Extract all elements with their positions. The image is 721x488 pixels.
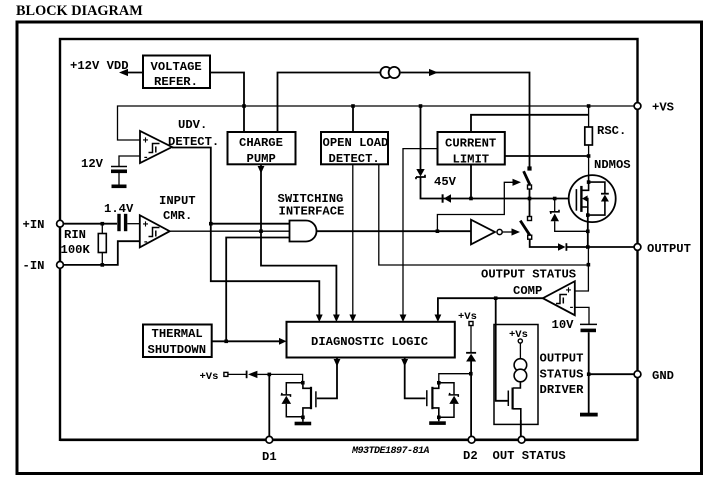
wire capacitor to comparator [127, 223, 140, 225]
wire switch pole segment [529, 189, 531, 217]
wire status output to driver gate [496, 298, 508, 401]
hysteresis symbol status comparator [556, 295, 567, 304]
battery 10V plate thick [581, 329, 597, 333]
arrowhead VDD [119, 69, 128, 76]
junction gnd line [587, 372, 591, 376]
svg-text:SHUTDOWN: SHUTDOWN [148, 343, 207, 357]
wire AND gate top input [211, 223, 290, 225]
terminal +VS [634, 103, 641, 110]
svg-text:+: + [566, 287, 572, 298]
junction rail/open-load [351, 104, 355, 108]
svg-text:1.4V: 1.4V [104, 202, 134, 216]
wire rail to 45V zener [420, 106, 422, 169]
svg-text:45V: 45V [434, 175, 457, 189]
svg-text:CMR.: CMR. [163, 209, 192, 223]
wire D1 node to FET drain [269, 374, 302, 382]
diode D2 pull (pointing up) [466, 352, 476, 354]
switch S2 blade [520, 221, 530, 236]
NDMOS channel bar [580, 186, 582, 212]
svg-text:NDMOS: NDMOS [594, 158, 631, 172]
wire S2 to output line [530, 239, 558, 247]
wire RSC bottom tap to current limit [505, 155, 589, 157]
box THERMAL SHUTDOWN [143, 325, 212, 358]
svg-text:BLOCK DIAGRAM: BLOCK DIAGRAM [16, 3, 143, 19]
terminal -IN [57, 262, 64, 269]
arrowhead S1 drive [513, 179, 522, 186]
box CURRENT LIMIT [438, 132, 505, 165]
wire charge-pump to current-source [278, 73, 381, 133]
svg-text:-: - [143, 237, 149, 248]
D1 FET source stub [303, 408, 311, 422]
wire status comp minus input to 10V ref [575, 307, 589, 324]
wire to GND terminal [589, 373, 635, 375]
terminal D2 [468, 436, 475, 443]
svg-text:+IN: +IN [23, 218, 45, 232]
svg-text:+VS: +VS [652, 101, 674, 115]
terminal OUT STATUS [518, 436, 525, 443]
terminal +Vs D2 square [469, 322, 473, 326]
svg-text:PUMP: PUMP [247, 152, 276, 166]
diode D1 pull (pointing left) [246, 371, 248, 379]
arrowhead into diagnostic logic (status comp) [435, 315, 442, 323]
op-amp input comparator [140, 215, 170, 247]
current source driver [514, 359, 527, 372]
switch S1 blade [524, 171, 530, 184]
wire output sense down [587, 247, 589, 265]
svg-text:RIN: RIN [64, 228, 86, 242]
svg-text:-: - [143, 153, 149, 164]
svg-text:REFER.: REFER. [154, 75, 198, 89]
IC boundary rectangle [60, 39, 638, 440]
wire open load to diagnostic logic [352, 164, 354, 316]
AND gate switching interface [290, 221, 317, 242]
svg-text:OUTPUT: OUTPUT [540, 352, 584, 366]
terminal OUTPUT [634, 244, 641, 251]
svg-text:D2: D2 [463, 449, 478, 463]
svg-text:OUTPUT STATUS: OUTPUT STATUS [481, 268, 576, 282]
D1 FET gate bar [315, 391, 317, 407]
junction D1 node [268, 373, 272, 377]
box VOLTAGE REFER. [143, 56, 210, 89]
capacitor 1.4V [117, 214, 120, 231]
svg-text:LIMIT: LIMIT [453, 153, 490, 167]
svg-text:COMP: COMP [513, 284, 542, 298]
arrowhead into diagnostic logic (UDV) [316, 315, 323, 323]
arrowhead S2 drive [512, 228, 521, 235]
junction status comp output/driver [494, 296, 498, 300]
wire RSC top tap to current limit [471, 115, 589, 132]
wire AND bottom input from thermal [226, 238, 289, 342]
arrowhead below charge pump [258, 166, 265, 174]
svg-text:VOLTAGE: VOLTAGE [151, 60, 202, 74]
zener 45V (pointing down) [416, 169, 424, 177]
box OPEN LOAD DETECT. [321, 132, 388, 164]
wire current-source to switch S1 [401, 73, 530, 167]
wire driver source to OUT STATUS [520, 420, 522, 437]
arrowhead into diagnostic logic (open load) [349, 315, 356, 323]
wire rail to open load box [352, 106, 354, 132]
wire diode to D2 node [470, 362, 472, 437]
wire thermal to diagnostic logic [212, 340, 280, 342]
wire current source to driver FET drain [513, 382, 520, 388]
svg-text:RSC.: RSC. [597, 124, 626, 138]
wire diag to D2 gate [405, 358, 426, 399]
svg-text:OUTPUT: OUTPUT [647, 242, 691, 256]
svg-text:+: + [143, 221, 149, 232]
svg-text:M93TDE1897-81A: M93TDE1897-81A [351, 446, 430, 457]
wire battery to ground [118, 173, 120, 185]
diode output blocking (pointing right) [558, 243, 566, 251]
svg-text:UDV.: UDV. [178, 118, 207, 132]
switch S1 throw square [528, 185, 532, 189]
arrowhead into diagnostic logic (current limit) [400, 315, 407, 323]
current source I1 [380, 67, 391, 78]
wire +Vs D2 down [470, 326, 472, 353]
wire -IN to comparator minus [63, 241, 140, 265]
D1 FET channel bar [310, 387, 312, 409]
D2 FET drain stub [432, 383, 438, 389]
wire diode to D1 node [257, 373, 269, 375]
bottom rail of IC [60, 438, 638, 441]
junction RIN/-IN [101, 263, 105, 267]
wire status comp plus input from output node [575, 265, 589, 291]
battery 12V plate thick [111, 170, 127, 174]
ground bar D2 [429, 421, 446, 425]
wire VREF to VS rail [210, 73, 244, 133]
ground bar under 12V battery [112, 185, 127, 189]
transistor NDMOS circle [569, 175, 616, 222]
terminal +Vs D1 square [224, 372, 228, 376]
junction gate-rail/gate zener [553, 197, 557, 201]
D2 FET source stub [432, 408, 438, 421]
svg-text:INPUT: INPUT [159, 194, 196, 208]
wire charge pump down line [261, 164, 336, 316]
ground bar D1 [295, 422, 312, 426]
svg-text:-IN: -IN [23, 259, 45, 273]
svg-text:+12V VDD: +12V VDD [70, 59, 129, 73]
wire +IN to capacitor [63, 223, 117, 225]
svg-text:+: + [143, 137, 149, 148]
junction UDV/AND-input [209, 222, 213, 226]
junction VREF/rail [242, 104, 246, 108]
junction +IN/RIN [101, 222, 105, 226]
op-amp output status comparator [543, 281, 575, 315]
svg-text:CHARGE: CHARGE [239, 136, 283, 150]
box DIAGNOSTIC LOGIC [287, 322, 455, 358]
D2 zener branch [439, 383, 454, 395]
junction D2 source/zener [437, 416, 441, 420]
arrowhead into diagnostic logic (pump line) [333, 315, 340, 323]
terminal +Vs driver [518, 339, 522, 343]
junction rail/45V clamp [419, 104, 423, 108]
node +VS internal rail [118, 106, 637, 140]
svg-text:GND: GND [652, 369, 674, 383]
resistor RIN 100K [101, 224, 103, 234]
wire +Vs to current source [519, 343, 521, 359]
ground bar below 10V [580, 413, 598, 417]
junction output node [586, 245, 590, 249]
junction D1 FET drain [301, 381, 305, 385]
junction current-limit/gate-rail [469, 197, 473, 201]
wire +Vs to D1 diode [228, 373, 246, 375]
junction thermal/AND-input [224, 340, 228, 344]
junction D1 source/zener [301, 416, 305, 420]
NDMOS source node [586, 213, 590, 217]
NDMOS drain internal [582, 176, 589, 190]
junction AND-output/S1 drive [436, 229, 440, 233]
driver FET source [513, 409, 521, 437]
resistor RSC [588, 106, 590, 127]
svg-text:DIAGNOSTIC LOGIC: DIAGNOSTIC LOGIC [311, 335, 428, 349]
hysteresis symbol UDV [149, 144, 160, 153]
junction output sense [587, 263, 591, 267]
arrowhead on gate supply wire [429, 69, 438, 76]
NDMOS gate bar [575, 189, 577, 211]
battery 10V plate thin [580, 323, 597, 325]
svg-text:DRIVER: DRIVER [540, 383, 585, 397]
arrowhead out of diag (D1 gate) [334, 359, 341, 367]
D1 FET drain stub [303, 383, 311, 389]
svg-text:+Vs: +Vs [200, 371, 219, 383]
wire UDV output down to AND and diag [172, 148, 319, 317]
wire inverter to S2 arrow [502, 231, 512, 233]
zener gate protection [554, 199, 556, 212]
junction D2 FET drain [437, 381, 441, 385]
inverter U2 [471, 220, 495, 245]
wire D2 node to FET drain [439, 374, 471, 383]
wire 10V battery to gnd [588, 332, 590, 413]
wire gate rail [421, 177, 576, 199]
driver FET gate bar [507, 391, 509, 407]
wire D1 node to terminal [268, 374, 270, 436]
junction rail/RSC [587, 104, 591, 108]
arrowhead into diagnostic logic (thermal) [279, 338, 287, 345]
driver FET channel bar [511, 388, 513, 410]
wire open load to output node [379, 164, 589, 265]
D2 FET gate bar [426, 390, 428, 406]
svg-text:OUT STATUS: OUT STATUS [493, 449, 566, 463]
diode on gate rail (pointing left) [444, 194, 451, 202]
op-amp UDV comparator [140, 131, 172, 163]
switch S2 throw square [528, 235, 532, 239]
switch S2 pole square [528, 217, 532, 221]
svg-text:CURRENT: CURRENT [445, 137, 496, 151]
wire AND output to inverter [317, 230, 471, 232]
wire UDV minus input [119, 156, 140, 166]
wire current limit status to diagnostic logic [403, 149, 438, 316]
wire RSC to NDMOS drain [588, 145, 590, 176]
wire VDD output arrow [126, 72, 143, 74]
svg-text:DETECT.: DETECT. [329, 152, 380, 166]
svg-text:THERMAL: THERMAL [152, 327, 203, 341]
wire comparator output to AND middle input [170, 230, 290, 232]
battery 12V plate thin [111, 166, 127, 168]
D1 zener branch [286, 383, 303, 395]
NDMOS source arrow [582, 195, 588, 201]
terminal D1 [266, 436, 273, 443]
NDMOS body diode [589, 182, 605, 193]
junction comparator-out/charge-pump line [259, 229, 263, 233]
junction D2 node [469, 372, 473, 376]
terminal GND [634, 371, 641, 378]
box CHARGE PUMP [228, 132, 296, 164]
junction zener/source [586, 230, 590, 234]
box output status driver enclosure [494, 325, 538, 425]
svg-text:10V: 10V [552, 318, 575, 332]
junction gate-rail/switch pole [528, 197, 532, 201]
junction RSC/current-limit tap [587, 154, 591, 158]
D2 FET channel bar [431, 387, 433, 409]
svg-text:100K: 100K [61, 243, 91, 257]
switch S1 pole square [527, 166, 531, 170]
wire S1 drive [437, 182, 513, 231]
svg-text:D1: D1 [262, 450, 277, 464]
svg-text:+Vs: +Vs [458, 311, 477, 323]
wire current limit bottom to gate rail [470, 165, 472, 199]
svg-text:OPEN LOAD: OPEN LOAD [323, 136, 389, 150]
wire NDMOS source to output [587, 215, 589, 247]
arrowhead out of diag (D2 gate) [401, 359, 408, 367]
svg-text:STATUS: STATUS [540, 368, 584, 382]
wire diode to OUTPUT terminal [566, 246, 634, 248]
wire diag to D1 gate [317, 358, 337, 399]
hysteresis symbol input comparator [149, 228, 160, 237]
terminal +IN [57, 220, 64, 227]
svg-text:-: - [569, 303, 575, 314]
svg-text:INTERFACE: INTERFACE [279, 205, 345, 219]
wire status comp output [438, 298, 543, 316]
svg-text:12V: 12V [81, 157, 104, 171]
